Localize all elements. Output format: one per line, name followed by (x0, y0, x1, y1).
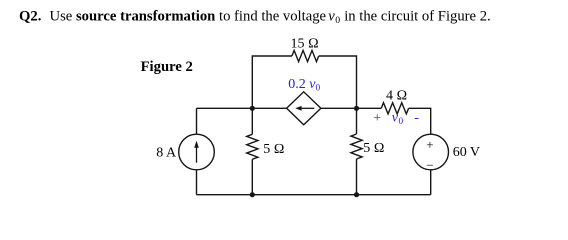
wire: middle rail from left branch to dependent source (197, 107, 287, 109)
node A junction dot (250, 106, 255, 111)
svg-text:Use source transformation to f: Use source transformation to find the vo… (50, 9, 327, 25)
wire: left 5-ohm resistor to bottom rail (251, 159, 253, 194)
bottom-left junction dot (250, 192, 255, 197)
bottom-right junction dot (354, 192, 359, 197)
dependent source arrow (points left) (295, 106, 314, 111)
svg-text:-: - (414, 110, 419, 125)
resistor 5 ohm (left, vertical) (247, 134, 258, 159)
svg-text:0: 0 (335, 15, 340, 26)
wire: bottom rail (197, 194, 431, 196)
svg-text:5 Ω: 5 Ω (263, 142, 284, 157)
svg-text:8 A: 8 A (156, 145, 177, 160)
svg-text:v: v (328, 9, 335, 25)
svg-text:5 Ω: 5 Ω (363, 141, 384, 156)
wire: node B down to right 5-ohm resistor (356, 108, 358, 134)
wire: right 5-ohm resistor to bottom rail (356, 159, 358, 195)
voltage source polarity marks (426, 137, 433, 172)
svg-text:+: + (426, 137, 433, 152)
svg-text:in the circuit of Figure 2.: in the circuit of Figure 2. (344, 9, 491, 25)
resistor 5 ohm (right, vertical) (351, 134, 362, 159)
dependent source 0.2 v0 (diamond) (287, 92, 321, 125)
wire: middle rail from dependent source to 4-ohm resistor (321, 107, 381, 109)
wire: below 60 V source to bottom rail (430, 170, 432, 195)
wire: top-left loop rail (node A up and right to 15-ohm) (252, 56, 292, 108)
wire: top rail right segment down to node B (319, 56, 357, 108)
label polarity + v0 - across 4 ohm (blue) (373, 110, 419, 127)
resistor 15 ohm (top) (292, 50, 319, 61)
svg-text:Q2.: Q2. (19, 9, 42, 25)
resistor 4 ohm (horizontal) (381, 103, 408, 114)
wire: node A down to left 5-ohm resistor (251, 108, 253, 134)
svg-text:0: 0 (399, 117, 404, 127)
voltage source 60 V (circle) (413, 134, 449, 170)
svg-text:4 Ω: 4 Ω (386, 88, 407, 103)
wire: left branch below 8 A source to bottom rail (196, 170, 198, 195)
wire: left branch above 8 A source (196, 108, 198, 134)
node B junction dot (354, 106, 359, 111)
wire: middle rail right corner down to 60 V source (409, 108, 431, 134)
svg-text:0.2 v0: 0.2 v0 (288, 77, 320, 94)
svg-text:+: + (373, 111, 381, 126)
svg-text:Figure 2: Figure 2 (141, 59, 193, 75)
svg-text:−: − (426, 157, 433, 172)
svg-text:60 V: 60 V (453, 145, 480, 160)
svg-text:15 Ω: 15 Ω (291, 36, 319, 51)
current source arrow (points up) (194, 141, 199, 163)
current source 8 A (circle) (179, 134, 215, 170)
